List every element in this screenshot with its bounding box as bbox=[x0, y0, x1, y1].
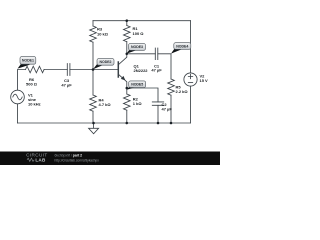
junction emitter NODE5 bbox=[126, 87, 129, 90]
svg-text:100 Ω: 100 Ω bbox=[133, 31, 145, 36]
resistor R6 bbox=[26, 66, 45, 73]
junction C2 bottom bbox=[157, 122, 160, 125]
capacitor C2 bbox=[152, 102, 163, 105]
svg-text:http://circuitlab.com/c/8ykach: http://circuitlab.com/c/8ykachpx bbox=[55, 159, 100, 163]
wire R4 top lead from NODE2 bbox=[92, 70, 94, 96]
junction R5 bottom bbox=[170, 122, 173, 125]
resistor R3 bbox=[90, 26, 97, 42]
wire R2 top lead from emitter node bbox=[126, 88, 128, 94]
svg-text:47 µF: 47 µF bbox=[162, 107, 173, 112]
wire V1 bottom to ground rail bbox=[17, 104, 19, 123]
capacitor C3 bbox=[67, 64, 70, 76]
wire V2 branch vertical top bbox=[190, 21, 192, 73]
source V2 DC circle bbox=[184, 73, 197, 86]
wire C3 to transistor base through NODE2 bbox=[70, 69, 119, 71]
svg-text:2N2222: 2N2222 bbox=[134, 68, 149, 73]
source V2 minus sign bbox=[188, 82, 192, 84]
junction collector NODE3 bbox=[126, 53, 129, 56]
transistor Q1 emitter arrowhead bbox=[121, 76, 126, 81]
svg-text:6kchbpx9f / part 2: 6kchbpx9f / part 2 bbox=[55, 153, 83, 157]
svg-text:NODE2: NODE2 bbox=[100, 60, 112, 64]
source V2 plus sign bbox=[188, 74, 192, 78]
wire R2 bottom lead bbox=[126, 110, 128, 123]
svg-text:1 kΩ: 1 kΩ bbox=[133, 101, 143, 106]
resistor R4 bbox=[90, 95, 97, 111]
wire R5 bottom lead bbox=[170, 95, 172, 123]
watermark CircuitLab logo bbox=[26, 153, 47, 163]
wire R4 bottom lead bbox=[92, 111, 94, 123]
junction ground tap bbox=[92, 122, 95, 125]
node NODE2 tag bbox=[93, 59, 114, 70]
node NODE5 tag bbox=[127, 81, 146, 90]
svg-text:10 kHz: 10 kHz bbox=[28, 101, 41, 106]
svg-text:47 µF: 47 µF bbox=[61, 83, 72, 88]
wire V2 bottom lead bbox=[190, 86, 192, 123]
node NODE4 tag bbox=[171, 43, 191, 54]
junction top R1 tap bbox=[126, 19, 129, 22]
wire R1 bottom to collector junction bbox=[126, 42, 128, 54]
node NODE1 tag bbox=[18, 57, 36, 69]
source V1 sine waveform bbox=[13, 94, 22, 100]
junction NODE2 bbox=[92, 68, 95, 71]
wire R6 to C3 bbox=[44, 69, 67, 71]
wire bottom ground rail bbox=[18, 122, 191, 124]
node NODE3 tag bbox=[127, 44, 146, 54]
transistor Q1 base bar bbox=[117, 62, 119, 77]
svg-text:15 V: 15 V bbox=[200, 78, 209, 83]
wire C1 to NODE4 corner down to R5 bbox=[158, 54, 171, 79]
svg-text:2.2 kΩ: 2.2 kΩ bbox=[176, 89, 189, 94]
wire R3 top lead bbox=[92, 21, 94, 26]
svg-text:500 Ω: 500 Ω bbox=[26, 81, 38, 86]
resistor R5 bbox=[168, 79, 175, 95]
junction R2 bottom bbox=[126, 122, 129, 125]
resistor R1 bbox=[124, 26, 131, 42]
wire C2 bottom lead bbox=[157, 105, 159, 123]
source V1 sine circle bbox=[11, 90, 25, 104]
wire collector node to C1 bbox=[127, 53, 156, 55]
capacitor C1 bbox=[155, 48, 158, 60]
wire input corner V1 to R6 bbox=[18, 70, 26, 91]
transistor Q1 collector bbox=[118, 54, 127, 65]
resistor R2 bbox=[124, 94, 131, 110]
watermark footer bar bbox=[0, 152, 220, 166]
svg-text:47 µF: 47 µF bbox=[151, 68, 162, 73]
wire emitter node to C2 bbox=[127, 88, 158, 102]
svg-text:NODE1: NODE1 bbox=[22, 59, 34, 63]
svg-text:10 kΩ: 10 kΩ bbox=[97, 31, 109, 36]
wire R1 top lead bbox=[126, 21, 128, 26]
wire R3 bottom to NODE2 junction bbox=[92, 42, 94, 69]
svg-text:NODE4: NODE4 bbox=[176, 44, 188, 48]
svg-text:4.7 kΩ: 4.7 kΩ bbox=[99, 102, 112, 107]
svg-text:LAB: LAB bbox=[35, 158, 46, 163]
wire top rail from R3 top to V2 top bbox=[93, 20, 191, 22]
svg-text:NODE3: NODE3 bbox=[131, 45, 143, 49]
svg-text:NODE5: NODE5 bbox=[131, 83, 143, 87]
transistor Q1 emitter bbox=[118, 74, 127, 88]
ground symbol bbox=[93, 123, 95, 128]
